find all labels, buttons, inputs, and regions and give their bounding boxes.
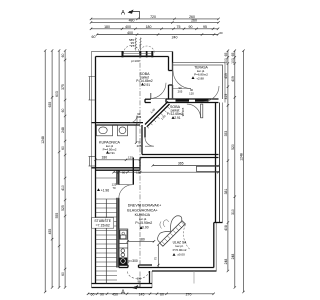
svg-text:310: 310 [231,209,235,215]
wall bottom porch [92,283,153,285]
door leaf petals [171,216,182,232]
window west wall soba1 [89,77,96,101]
svg-text:555: 555 [55,213,59,219]
svg-text:60: 60 [160,292,164,296]
svg-text:120: 120 [189,91,194,95]
entry dashed swing [183,225,189,250]
svg-text:A: A [121,11,125,17]
svg-text:60: 60 [219,31,223,35]
svg-text:180: 180 [146,25,152,29]
svg-text:248: 248 [224,259,228,265]
svg-text:60: 60 [92,35,96,39]
diagonal wall hatch [147,107,171,129]
window top wall glazing [123,53,152,55]
wall bathroom bottom [92,167,141,169]
terrace window glazing [176,99,209,101]
porch step edge [193,271,195,284]
stair center line [105,199,107,284]
svg-text:205: 205 [178,89,183,93]
wall east jog [214,222,223,224]
svg-text:1248: 1248 [41,136,45,144]
svg-text:90: 90 [137,280,141,284]
wall east lower [213,223,215,268]
chimney living room [197,166,220,171]
svg-text:459: 459 [224,73,228,79]
svg-text:248: 248 [231,254,235,260]
svg-text:353: 353 [224,131,228,137]
svg-text:75: 75 [154,257,158,261]
wall stub left of soba1 door [145,98,151,100]
svg-text:60: 60 [61,146,65,150]
wall inner top (main block) [96,56,169,58]
level triangles [141,83,144,86]
svg-text:480: 480 [129,18,135,22]
wall bathroom top / soba1 bottom [92,122,144,124]
hinge swirls [163,220,168,227]
dim row 2 [91,21,219,23]
door soba2 [145,137,154,146]
svg-text:419: 419 [224,94,228,100]
svg-text:205: 205 [136,115,141,119]
level +1.96 [97,188,100,191]
svg-text:100: 100 [224,58,228,64]
svg-text:p=100: p=100 [131,59,140,63]
svg-text:60: 60 [61,54,65,58]
svg-text:525: 525 [61,205,65,211]
outer contour south-east notch [152,223,216,272]
wall soba2 bottom [142,154,219,156]
svg-text:±0.00: ±0.00 [177,252,185,256]
bathroom interior dim [135,125,137,143]
svg-text:90: 90 [189,25,193,29]
svg-text:260: 260 [191,18,197,22]
svg-text:400: 400 [125,25,131,29]
wall stub right of soba1 door [166,98,169,100]
svg-text:90: 90 [100,292,104,296]
svg-text:603: 603 [55,91,59,97]
svg-text:270: 270 [186,292,192,296]
svg-text:408: 408 [224,225,228,231]
wall bathroom east [141,125,143,155]
terrace door swing [173,71,191,89]
wall inner west [95,57,97,284]
svg-text:65: 65 [224,53,228,57]
wall east inner [215,103,217,223]
entry width dim [157,245,159,268]
svg-text:248: 248 [61,127,65,133]
wall right of main block with terrace door opening [168,57,170,71]
svg-text:435: 435 [48,229,52,235]
svg-text:635: 635 [48,102,52,108]
door bathroom [130,116,137,123]
door soba1 [150,83,166,99]
svg-text:381: 381 [224,189,228,195]
svg-text:400: 400 [127,31,133,35]
landing edge [96,177,118,179]
washing machine [118,125,128,136]
outer contour terrace [173,63,226,103]
door size labels [112,86,195,284]
svg-text:60: 60 [91,292,95,296]
wall terrace bottom (house north wall of soba2) [169,98,219,100]
door stairs landing [119,185,133,199]
kitchen dim 180 [127,240,156,242]
svg-text:70: 70 [112,186,116,190]
svg-text:520: 520 [231,144,235,150]
wall south of living [152,267,214,269]
svg-text:+1.96: +1.96 [101,188,110,192]
dim row 3 [91,28,218,30]
terrace parapet [173,63,223,100]
svg-text:410: 410 [61,185,65,191]
svg-text:65: 65 [231,53,235,57]
svg-text:240: 240 [172,36,178,40]
svg-text:1248: 1248 [240,153,244,161]
svg-text:145: 145 [139,292,145,296]
svg-text:97: 97 [131,44,135,48]
bathroom dim 180+125 [94,159,141,161]
vanity [97,125,113,136]
stairs label box [92,218,114,229]
svg-text:A: A [121,290,125,296]
svg-text:365: 365 [178,162,184,166]
outer contour west+top [92,52,173,288]
wall south with entry door [119,267,128,269]
svg-text:P=25.90m2: P=25.90m2 [135,221,152,225]
svg-text:=7.15x62: =7.15x62 [96,224,110,228]
svg-text:180: 180 [102,156,108,160]
terrace glass door swing [204,86,220,102]
wall stairs east [116,170,118,185]
svg-text:STUBIŠTE: STUBIŠTE [94,218,111,223]
outer porch edge [92,271,153,288]
diagonal wall soba2 [145,102,168,125]
dim row 4 [97,34,218,36]
svg-text:DNEVNI BORAVAK+: DNEVNI BORAVAK+ [128,204,162,208]
svg-text:409: 409 [231,76,235,82]
svg-text:BLAGOVAONICA+: BLAGOVAONICA+ [127,208,157,212]
svg-text:180: 180 [104,25,110,29]
bathroom window [89,157,96,167]
dim row 1 [91,18,219,20]
svg-text:125: 125 [128,156,133,160]
svg-text:100: 100 [231,58,235,64]
svg-text:+2.88: +2.88 [196,76,204,80]
svg-text:450: 450 [112,292,118,296]
svg-text:205: 205 [137,144,142,148]
kitchen stove black [119,258,127,265]
svg-text:125: 125 [136,170,141,174]
svg-text:95: 95 [203,25,207,29]
wall closet by stairs [132,158,134,185]
svg-text:75: 75 [177,25,181,29]
svg-text:375: 375 [61,84,65,90]
svg-text:60: 60 [61,109,65,113]
entry door dashed swing [128,272,149,279]
svg-text:p=300: p=300 [129,259,138,263]
outer contour east [222,103,224,223]
svg-text:60: 60 [61,272,65,276]
svg-text:720: 720 [150,15,156,19]
svg-text:60: 60 [122,170,126,174]
